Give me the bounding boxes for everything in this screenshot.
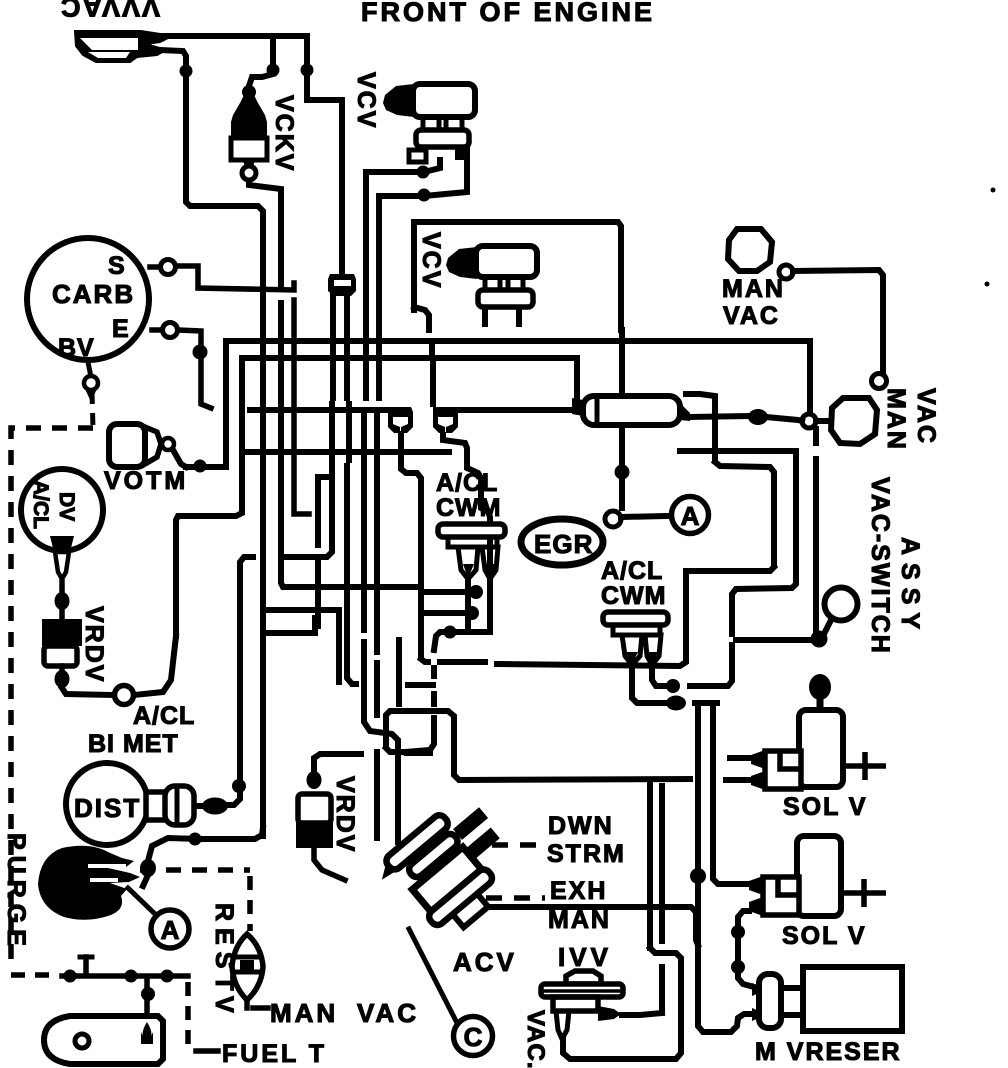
dashed pointer DWN STRM xyxy=(492,842,545,848)
connector circle EGR xyxy=(605,511,621,527)
wire x333 down to y557 xyxy=(287,404,332,557)
wire dish lower nozzle long vertical x263 xyxy=(160,50,263,836)
wire y610 xyxy=(263,607,339,613)
wire plug A down to y662 xyxy=(401,434,421,655)
wire x713 to SOL V2 xyxy=(713,705,747,884)
wire purge to A xyxy=(128,888,155,914)
wire y758 to SOL V1 upper xyxy=(730,755,749,761)
wire x377 long xyxy=(374,416,380,652)
wire purge upper hose xyxy=(148,838,200,861)
dashed pointer EXH MAN xyxy=(486,895,545,901)
wire VCV2 box U xyxy=(414,222,621,330)
valve SOL V 2 xyxy=(797,836,841,916)
wire x698 top xyxy=(695,703,701,740)
svg-text:EXH: EXH xyxy=(550,877,607,905)
wire bead to DIST plug xyxy=(194,803,203,809)
wire EGR circle to A xyxy=(621,516,668,517)
wire branch y633 xyxy=(265,618,315,633)
svg-text:VAC-SWITCH: VAC-SWITCH xyxy=(866,477,894,655)
connector plug A xyxy=(388,407,413,433)
wire tick top xyxy=(80,955,92,960)
svg-text:VRDV: VRDV xyxy=(331,776,359,853)
wire x366 crossing buses xyxy=(363,346,369,352)
bead purge hose xyxy=(140,859,156,877)
wire x816 to vac-switch dot xyxy=(813,459,819,634)
svg-text:V: V xyxy=(210,996,238,1013)
svg-text:FRONT OF ENGINE: FRONT OF ENGINE xyxy=(361,0,655,27)
svg-text:A/CL: A/CL xyxy=(601,557,663,585)
wire xyxy=(344,362,350,398)
svg-text:S: S xyxy=(108,252,125,280)
svg-text:CWM: CWM xyxy=(601,582,666,610)
svg-text:MAN: MAN xyxy=(548,906,611,934)
wire x318 branch upper xyxy=(318,477,332,545)
svg-text:ASSY: ASSY xyxy=(896,537,924,637)
junction above VCKV xyxy=(242,85,256,99)
svg-text:VCKV: VCKV xyxy=(270,95,298,172)
wire xyxy=(344,346,350,352)
svg-text:VAC: VAC xyxy=(912,388,940,445)
wire CARB S port xyxy=(150,264,161,270)
valve VCV 1 xyxy=(383,84,414,117)
wire VRDV2 to ACV xyxy=(314,846,345,880)
component A/CL DV xyxy=(21,469,103,551)
wire curve to BIMET circle xyxy=(134,636,176,695)
stub wire 1 xyxy=(426,589,468,595)
junction vapor 1 xyxy=(64,970,77,983)
junction VCV1 A xyxy=(417,166,430,179)
wire x364 jog to x398 into ACV xyxy=(364,642,398,842)
valve SOL V 1 xyxy=(809,674,831,700)
bus 2 horizontal y358 xyxy=(242,355,577,361)
svg-text:M VRESER: M VRESER xyxy=(755,1038,902,1066)
wire IVV bottom loop xyxy=(563,948,681,1059)
dashed line BV down xyxy=(92,392,93,428)
wire x366 seg xyxy=(363,362,369,398)
wire ACV to C xyxy=(409,929,456,1021)
wire pod1 left prong down xyxy=(465,582,471,628)
wire x715 hop xyxy=(712,446,718,458)
svg-text:DV: DV xyxy=(55,492,78,521)
svg-text:VAC.: VAC. xyxy=(522,1010,549,1068)
wire plug B zigzag down xyxy=(443,435,490,628)
wire S to x294 xyxy=(176,266,294,290)
wire x347 long down xyxy=(347,466,356,684)
wire vac-switch horizontal xyxy=(736,637,812,643)
wire V REST stub xyxy=(244,1000,250,1008)
component A/CL CWM pod 2 xyxy=(603,612,668,625)
component FUEL TANK xyxy=(44,1016,163,1064)
junction vapor 3 xyxy=(161,970,174,983)
wire VCKV outlet down xyxy=(249,166,281,284)
junction on x186 xyxy=(180,65,193,78)
wire fuel tank riser xyxy=(144,978,150,1016)
svg-text:VOTM: VOTM xyxy=(104,467,188,495)
wire y662 seg xyxy=(440,659,485,665)
dash MAN VAC xyxy=(253,1005,268,1011)
junction VCV1 B xyxy=(418,189,431,202)
wire x386 foot xyxy=(386,748,404,752)
component A/CL CWM pod 1 xyxy=(438,524,505,537)
valve VCV 2 xyxy=(446,247,477,279)
wire y703 resume xyxy=(695,700,717,706)
bead on E wire xyxy=(193,345,208,360)
wire ACV to x698 xyxy=(475,907,698,945)
wire to VRDV1 xyxy=(59,610,65,619)
circle VCKV outlet xyxy=(242,166,256,180)
wire IVV nozzle xyxy=(622,1013,662,1015)
wire x650 down xyxy=(647,780,653,948)
stub wire 2 xyxy=(426,610,464,616)
wire vac-switch stem xyxy=(824,620,831,634)
valve VRDV 1 xyxy=(42,619,82,646)
wire x379 crossing buses xyxy=(376,346,382,352)
wire DV outlet xyxy=(59,582,65,592)
wire y780 to SOL V1 lower xyxy=(726,777,749,783)
circle A/CL BIMET xyxy=(115,686,134,705)
wire bus2 left drop to BIMET xyxy=(176,358,242,636)
wire x816 upper xyxy=(813,429,819,443)
wire x318 branch lower xyxy=(315,559,321,626)
bead VRDV2 top xyxy=(307,771,322,789)
wire VRDV2 top xyxy=(314,754,361,771)
wire x339 down xyxy=(336,610,342,682)
wire y685 seg xyxy=(408,682,433,688)
connector circle E xyxy=(163,323,178,338)
svg-text:EGR: EGR xyxy=(534,529,593,559)
junction on x307 xyxy=(301,64,314,77)
wire CARB E port xyxy=(152,327,161,333)
wire x434 seg xyxy=(431,668,437,676)
wire x432 to plug B xyxy=(430,362,436,404)
wire y753 seg xyxy=(407,750,430,756)
wire into purge xyxy=(143,875,148,886)
wire x347 prong xyxy=(344,294,350,336)
wire x333 prong xyxy=(330,294,336,336)
valve VCKV xyxy=(231,95,267,140)
wire hex1 to hex2 xyxy=(793,270,883,372)
wire W2 staircase xyxy=(732,451,796,634)
wire x281 down to y587 xyxy=(281,303,420,587)
svg-text:SOL V: SOL V xyxy=(782,922,867,950)
wire VCV1 port B xyxy=(379,148,467,336)
connector circle BV xyxy=(84,376,98,390)
wire x698 to M VRESER lower xyxy=(698,882,752,1032)
wire x377 seg2 xyxy=(374,663,380,715)
component IVV xyxy=(566,971,601,984)
wire x732 to pod2 xyxy=(690,645,732,686)
svg-text:VCV: VCV xyxy=(417,232,445,289)
svg-text:A: A xyxy=(681,501,700,531)
speck 2 xyxy=(985,282,990,287)
circle VAC-SWITCH xyxy=(825,588,858,621)
junction x698 xyxy=(690,868,706,884)
wire box jog to x432 xyxy=(414,307,429,330)
wire bus1 right drop to MAN VAC hex xyxy=(807,341,813,412)
component V REST xyxy=(232,934,263,1000)
wire x377 seg3 xyxy=(374,752,380,838)
wire x399 xyxy=(396,640,402,704)
wire x662 up seg xyxy=(659,967,665,1010)
connector circle hex1 xyxy=(779,265,793,279)
wire x698 continuous xyxy=(695,740,701,870)
wire VCV1 port A xyxy=(366,160,440,336)
wire VRDV1 out xyxy=(59,666,65,671)
wire xyxy=(346,404,352,460)
bead VRDV1 outlet xyxy=(55,670,70,688)
component VOTM xyxy=(109,424,145,467)
junction DIST riser xyxy=(232,779,246,793)
wire x294 down xyxy=(294,300,309,514)
MAN VAC hexagon 1 xyxy=(728,229,772,271)
MAN VAC hexagon 2 xyxy=(831,398,877,444)
speck 1 xyxy=(991,188,996,193)
wire pod2 left prong xyxy=(632,668,664,703)
component inline pod xyxy=(583,396,680,425)
wire y410 right segment xyxy=(456,407,575,413)
stub dot 1 xyxy=(469,585,483,599)
svg-text:E: E xyxy=(112,315,129,343)
valve EGR xyxy=(521,519,603,565)
junction y632 xyxy=(444,626,457,639)
svg-text:DIST: DIST xyxy=(74,793,141,823)
wire SOL V2 to M VRESER upper xyxy=(738,911,754,987)
svg-text:SOL V: SOL V xyxy=(783,793,868,821)
wire y571 xyxy=(686,567,774,571)
svg-text:A: A xyxy=(161,915,180,945)
wire VCKV elbow xyxy=(249,74,273,86)
wire x379 seg xyxy=(376,362,382,398)
wire BIMET to VRDV1 xyxy=(62,688,114,695)
junction purge hose xyxy=(189,833,202,846)
wire x434 seg2 xyxy=(431,694,437,704)
wire pod to EGR xyxy=(619,427,625,465)
connector plug B xyxy=(433,407,458,433)
stub dot 2 xyxy=(465,606,479,620)
junction vapor 2 xyxy=(125,970,138,983)
dashed line to FUEL T xyxy=(185,982,191,1051)
connector plug manifold fitting xyxy=(328,274,356,296)
component CARB xyxy=(27,238,149,360)
bus 1 horizontal y341 xyxy=(226,338,810,344)
svg-text:STRM: STRM xyxy=(547,840,626,868)
junction VCKV top xyxy=(267,64,280,77)
wire x662 riser xyxy=(659,786,665,941)
dash FUEL T xyxy=(196,1048,218,1054)
wire x364 long xyxy=(361,416,367,630)
svg-text:BI MET: BI MET xyxy=(88,730,179,758)
wire fuel vapor line xyxy=(62,973,188,979)
svg-text:VAC: VAC xyxy=(723,302,780,330)
wire pod to hex2 xyxy=(766,417,802,421)
wire dish top nozzle to VCV2 feed xyxy=(148,36,342,271)
circle VOTM port xyxy=(162,438,174,450)
svg-text:DWN: DWN xyxy=(548,812,614,840)
connector cone BV xyxy=(86,391,96,402)
bead DV outlet xyxy=(55,592,70,610)
bead DIST wire xyxy=(202,798,228,815)
svg-text:CARB: CARB xyxy=(52,279,135,309)
dashed line purge to V REST xyxy=(140,867,250,873)
component dish vacuum unit xyxy=(75,31,168,62)
connector circle hex2 top xyxy=(872,374,887,389)
svg-text:ACV: ACV xyxy=(453,947,517,977)
bead pod2 left wire xyxy=(666,696,686,711)
svg-text:VAC: VAC xyxy=(357,998,419,1028)
junction bead 2 xyxy=(731,960,745,974)
svg-text:MAN: MAN xyxy=(722,275,785,303)
component M VRESER xyxy=(752,983,759,1021)
wire to pod2 right prong xyxy=(652,668,676,686)
connector circle S xyxy=(161,260,176,275)
wire box right to pod xyxy=(619,330,625,392)
component PURGE canister xyxy=(38,846,140,920)
wire x774 up to y466 xyxy=(715,462,774,563)
wire corner xyxy=(421,659,428,662)
svg-text:VCV: VCV xyxy=(352,72,380,129)
wire VCKV feed upper xyxy=(270,36,276,66)
dashed box purge system xyxy=(11,428,93,970)
bus 3 horizontal y452 left xyxy=(247,449,449,455)
junction pod2 wire xyxy=(666,679,680,693)
component DIST xyxy=(66,763,148,845)
wire into DIST bead xyxy=(228,792,240,805)
wire x434 to VRDV2 line xyxy=(405,718,434,752)
wire tick xyxy=(83,957,89,973)
svg-text:C: C xyxy=(464,1022,483,1052)
wire CARB BV port xyxy=(88,362,90,372)
wire y632 xyxy=(434,632,490,650)
wire to EGR circle xyxy=(619,479,625,508)
wire bus2 right drop to pod xyxy=(574,358,580,398)
junction bead 1 xyxy=(731,925,745,939)
bus 3 horizontal y452 right xyxy=(680,448,796,454)
bead pod-hex wire xyxy=(748,409,768,425)
junction tank riser xyxy=(141,987,155,1001)
svg-text:VVVAC: VVVAC xyxy=(59,0,160,22)
wire xyxy=(330,362,336,398)
svg-text:MAN: MAN xyxy=(882,388,910,451)
wire y665 to x686 up xyxy=(497,575,686,666)
connector DIST plug xyxy=(146,792,167,820)
wire E stub xyxy=(178,330,211,408)
wire y711 U to y780 xyxy=(386,711,690,780)
wire bus1 left drop to VOTM xyxy=(186,341,226,467)
svg-text:A/CL: A/CL xyxy=(29,480,52,529)
junction VOTM wire xyxy=(194,460,207,473)
wire x715 to pod top xyxy=(686,394,715,440)
wire VOTM diagonal xyxy=(173,450,186,467)
svg-text:IVV: IVV xyxy=(558,942,612,972)
wire pod nozzle to bead xyxy=(690,416,748,417)
wire circle to hex2 xyxy=(816,418,829,424)
svg-text:PURGE: PURGE xyxy=(2,833,30,952)
svg-text:VRDV: VRDV xyxy=(80,606,108,683)
svg-text:A/CL: A/CL xyxy=(133,702,195,730)
connector circle hex2 left xyxy=(802,414,816,428)
wire xyxy=(330,346,336,352)
valve VRDV 2 xyxy=(298,794,331,823)
svg-text:A/CL: A/CL xyxy=(436,469,498,497)
svg-text:MAN: MAN xyxy=(270,998,338,1028)
junction EGR riser xyxy=(615,465,630,480)
wire y557 to x240 down xyxy=(240,557,253,780)
junction vac-switch xyxy=(811,631,828,648)
wire x432 seg xyxy=(429,341,435,352)
wire y410 to plug A xyxy=(250,407,388,413)
valve ACV assembly xyxy=(373,791,532,948)
svg-text:FUEL T: FUEL T xyxy=(222,1040,327,1068)
wire U-turn into purge line xyxy=(200,828,263,839)
node A (EGR) xyxy=(672,497,709,534)
